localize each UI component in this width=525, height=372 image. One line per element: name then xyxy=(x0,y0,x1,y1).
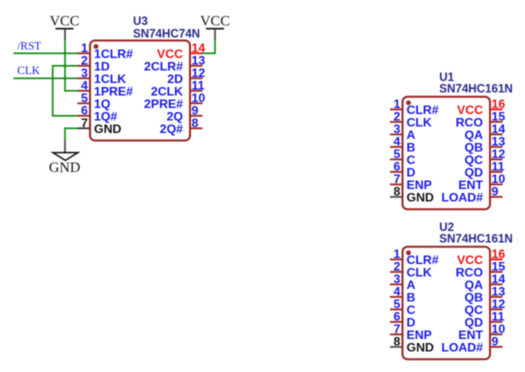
U1 pin 10 (ENT) right xyxy=(458,172,505,192)
U1 pin 4 (B) left xyxy=(390,135,416,155)
svg-text:GND: GND xyxy=(407,191,434,205)
IC U3 (SN74HC74N) body xyxy=(90,41,190,141)
svg-text:8: 8 xyxy=(393,335,400,349)
U1 pin 15 (RCO) right xyxy=(456,110,506,130)
U3 pin 4 (1PRE#) left xyxy=(78,79,134,99)
U3 pin 11 (2CLK) right xyxy=(151,79,205,99)
U2 pin 8 (GND) left xyxy=(390,335,434,355)
U3 pin 6 (1Q#) left xyxy=(78,104,118,124)
svg-text:2Q#: 2Q# xyxy=(160,122,183,136)
wire VCC (left) horizontal to U3 pin 4 xyxy=(65,90,78,92)
svg-text:SN74HC161N: SN74HC161N xyxy=(439,233,512,246)
U2 pin 5 (C) left xyxy=(390,297,416,317)
U1 pin 1 (CLR#) left xyxy=(390,97,439,117)
U2 pin 11 (QD) right xyxy=(465,310,505,330)
svg-text:/RST: /RST xyxy=(17,40,41,52)
U1 pin 2 (CLK) left xyxy=(390,110,432,130)
svg-text:U3: U3 xyxy=(133,15,148,28)
U1 pin 16 (VCC) right xyxy=(457,97,505,117)
U3 pin 5 (1Q) left xyxy=(78,91,111,111)
svg-text:GND: GND xyxy=(49,160,80,176)
wire vertical 1D to 1Q# feedback xyxy=(52,65,54,117)
svg-text:CLK: CLK xyxy=(17,65,40,77)
wire U3 pin 6 (1Q#) horizontal xyxy=(53,115,78,117)
IC U1 (SN74HC161N) body xyxy=(403,97,491,210)
U1 pin 6 (D) left xyxy=(390,160,416,180)
IC U2 (SN74HC161N) body xyxy=(403,247,491,359)
U1 pin 7 (ENP) left xyxy=(390,172,432,192)
U3 pin 8 (2Q#) right xyxy=(160,116,203,136)
U3 pin 9 (2Q) right xyxy=(167,104,203,124)
U2 pin 16 (VCC) right xyxy=(457,247,505,267)
svg-text:LOAD#: LOAD# xyxy=(441,341,483,355)
U3 pin 14 (VCC) right xyxy=(157,41,205,61)
U2 value label SN74HC161N xyxy=(439,233,512,246)
wire CLK to U3 pin 3 xyxy=(14,77,78,79)
svg-text:7: 7 xyxy=(81,116,88,130)
U2 pin 9 (LOAD#) right xyxy=(441,335,502,355)
svg-text:LOAD#: LOAD# xyxy=(441,191,483,205)
wire U3 pin 7 to ground vertical xyxy=(64,128,66,141)
U3 pin 1 (1CLR#) left xyxy=(78,41,134,61)
U1 pin 12 (QC) right xyxy=(465,147,506,167)
U3 value label SN74HC74N xyxy=(133,28,200,41)
wire U3 pin 14 horizontal to VCC (right) xyxy=(202,52,215,54)
U2 pin 15 (RCO) right xyxy=(456,260,506,280)
svg-text:9: 9 xyxy=(492,185,499,199)
svg-text:9: 9 xyxy=(492,335,499,349)
U2 pin 3 (A) left xyxy=(390,272,416,292)
U3 reference designator label xyxy=(133,15,148,28)
U1 pin 11 (QD) right xyxy=(465,160,505,180)
U2 pin 12 (QC) right xyxy=(465,297,506,317)
U3 pin 2 (1D) left xyxy=(78,54,110,74)
wire U3 pin 2 (1D) horizontal xyxy=(53,65,78,67)
svg-text:VCC: VCC xyxy=(200,13,230,29)
U2 pin 6 (D) left xyxy=(390,310,416,330)
wire VCC (right) vertical xyxy=(214,40,216,55)
power symbol VCC (right, above U3 pin 14) xyxy=(200,13,230,40)
U3 pin 13 (2CLR#) right xyxy=(144,54,205,74)
svg-text:8: 8 xyxy=(192,116,199,130)
svg-text:GND: GND xyxy=(94,122,121,136)
wire VCC (left) vertical to pin 4 row xyxy=(64,40,66,92)
U2 reference designator label xyxy=(439,221,454,234)
U3 pin 12 (2D) right xyxy=(167,66,205,86)
U1 pin 9 (LOAD#) right xyxy=(441,185,502,205)
U2 pin 4 (B) left xyxy=(390,285,416,305)
svg-text:VCC: VCC xyxy=(50,13,80,29)
U3 pin 3 (1CLK) left xyxy=(78,66,127,86)
U2 pin 14 (QA) right xyxy=(465,272,506,292)
U1 pin 8 (GND) left xyxy=(390,185,434,205)
U1 pin 3 (A) left xyxy=(390,122,416,142)
svg-text:8: 8 xyxy=(393,185,400,199)
U2 pin 10 (ENT) right xyxy=(458,322,505,342)
U1 pin 13 (QB) right xyxy=(465,135,506,155)
wire U3 pin 7 to ground horizontal xyxy=(64,127,78,129)
svg-text:SN74HC74N: SN74HC74N xyxy=(133,28,200,41)
U2 pin 13 (QB) right xyxy=(465,285,506,305)
wire /RST to U3 pin 1 xyxy=(14,52,78,54)
net label /RST xyxy=(17,40,41,52)
power symbol VCC (left, above U3) xyxy=(50,13,80,40)
ground symbol GND (below U3 pin 7) xyxy=(49,140,80,176)
svg-text:SN74HC161N: SN74HC161N xyxy=(439,83,512,96)
U3 pin 7 (GND) left xyxy=(78,116,122,136)
U1 value label SN74HC161N xyxy=(439,83,512,96)
U2 pin 1 (CLR#) left xyxy=(390,247,439,267)
U2 pin 7 (ENP) left xyxy=(390,322,432,342)
U1 reference designator label xyxy=(439,71,454,84)
svg-text:GND: GND xyxy=(407,341,434,355)
U1 pin 5 (C) left xyxy=(390,147,416,167)
U3 pin 10 (2PRE#) right xyxy=(144,91,205,111)
U2 pin 2 (CLK) left xyxy=(390,260,432,280)
net label CLK xyxy=(17,65,40,77)
U1 pin 14 (QA) right xyxy=(465,122,506,142)
